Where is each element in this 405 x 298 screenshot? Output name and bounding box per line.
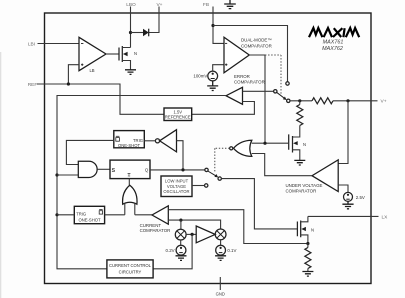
svg-text:DUAL-MODE™: DUAL-MODE™ xyxy=(241,38,272,43)
logic OR gate xyxy=(123,185,137,204)
wire multiplier to buffer xyxy=(186,233,196,235)
wire error comparator top input xyxy=(243,90,274,92)
wire REF net xyxy=(37,84,164,114)
ground 2.5V xyxy=(342,201,353,208)
svg-text:COMPARATOR: COMPARATOR xyxy=(241,43,272,48)
wire FB vertical xyxy=(213,7,224,44)
svg-text:N: N xyxy=(311,228,314,233)
multiplier X2 xyxy=(215,229,226,240)
svg-text:TRIG: TRIG xyxy=(76,212,86,217)
switch LX drive circle B xyxy=(205,184,208,187)
switch FB select pole xyxy=(274,90,277,93)
switch FB blade xyxy=(277,92,287,100)
wire node to multiplier xyxy=(180,220,182,229)
wire one-shot bottom input xyxy=(57,214,74,216)
svg-text:MAX761: MAX761 xyxy=(323,39,344,45)
wire latch Q output xyxy=(150,169,205,171)
svg-text:REF: REF xyxy=(28,82,38,88)
wire latch R input xyxy=(128,179,130,186)
wire V+ top vertical xyxy=(149,7,159,33)
svg-text:MAX762: MAX762 xyxy=(322,46,343,52)
wire divider rail to V+ xyxy=(290,100,378,102)
ground sense resistor xyxy=(302,272,313,277)
transistor Q3 LX output xyxy=(297,216,308,243)
ground 0.1V xyxy=(215,256,226,261)
logic AND gate xyxy=(78,161,97,177)
wire error comparator bottom input from reference xyxy=(192,102,255,115)
svg-text:UNDER VOLTAGE: UNDER VOLTAGE xyxy=(286,183,323,188)
svg-text:Q: Q xyxy=(145,167,149,172)
op-amp error comparator xyxy=(226,87,243,104)
block one-shot bottom xyxy=(74,206,104,223)
wire OR right input xyxy=(134,203,136,215)
svg-text:CURRENT CONTROL: CURRENT CONTROL xyxy=(109,263,152,268)
node LBO junction xyxy=(129,31,132,34)
switch LX drive common xyxy=(218,177,221,180)
op-amp dual-mode comparator xyxy=(224,37,249,73)
voltage source 2.5V xyxy=(344,192,353,201)
node divider top xyxy=(298,99,301,102)
svg-text:2.5V: 2.5V xyxy=(356,195,365,200)
node sense xyxy=(306,242,309,245)
svg-text:CIRCUITRY: CIRCUITRY xyxy=(119,270,142,275)
svg-text:LB: LB xyxy=(89,68,94,73)
svg-text:FB: FB xyxy=(203,2,209,8)
svg-text:V+: V+ xyxy=(156,2,162,8)
wire LB output to Q1 gate xyxy=(106,53,119,55)
svg-text:REFERENCE: REFERENCE xyxy=(165,115,191,120)
wire UV comparator bottom input xyxy=(338,185,348,192)
wire UV comparator output xyxy=(252,154,312,176)
resistor R3 sense xyxy=(305,244,311,272)
wire buffer node to current control xyxy=(153,234,192,268)
transistor Q1 LBO driver xyxy=(119,46,131,70)
svg-text:0.2V: 0.2V xyxy=(166,248,175,253)
wire gate net dual-mode xyxy=(252,142,289,144)
svg-text:1.5V: 1.5V xyxy=(173,109,182,114)
outer border box xyxy=(45,13,372,284)
wire 100mV to comparator plus xyxy=(213,65,224,71)
svg-text:ONE-SHOT: ONE-SHOT xyxy=(118,143,141,148)
wire one-shot output to AND xyxy=(66,140,113,164)
svg-text:COMPARATOR: COMPARATOR xyxy=(140,228,171,233)
svg-text:ONE-SHOT: ONE-SHOT xyxy=(78,217,101,222)
node gate net xyxy=(263,142,266,145)
wire dual-mode output xyxy=(249,55,265,143)
ground 100mV xyxy=(207,81,218,91)
svg-text:COMPARATOR: COMPARATOR xyxy=(286,189,317,194)
buffer U4 xyxy=(196,226,215,243)
wire inverter input from Q xyxy=(177,141,184,170)
wire FB to divider switch xyxy=(213,26,288,82)
block one-shot top xyxy=(114,131,145,148)
resistor R2 vertical xyxy=(293,101,303,137)
node V+ sense xyxy=(346,99,349,102)
wire switch common to LX gate xyxy=(221,179,297,229)
svg-text:N: N xyxy=(134,51,137,56)
block low input voltage oscillator xyxy=(161,176,192,197)
wire dotted switch control lower xyxy=(215,148,230,172)
wire LX drain to pin xyxy=(308,215,379,217)
op-amp LB comparator xyxy=(79,37,106,70)
svg-text:N: N xyxy=(303,142,306,147)
wire dotted switch control upper xyxy=(265,55,281,94)
wire current comparator top input sense xyxy=(168,210,308,244)
switch LX blade xyxy=(208,171,218,177)
switch FB select circle B xyxy=(287,99,290,102)
svg-text:100mV: 100mV xyxy=(193,74,207,79)
wire AND bottom input xyxy=(57,174,78,176)
wire error comparator output feedback xyxy=(57,96,226,269)
ground top pin xyxy=(224,0,236,9)
node feedback to one-shot xyxy=(55,213,58,216)
node multiplier top xyxy=(179,219,182,222)
svg-text:LBO: LBO xyxy=(126,2,136,8)
node FB junction xyxy=(211,24,214,27)
wire oscillator to switch xyxy=(192,185,205,187)
svg-text:0.1V: 0.1V xyxy=(227,248,236,253)
voltage source 0.2V xyxy=(176,240,186,255)
multiplier X1 xyxy=(175,229,186,240)
wire one-shot bottom output xyxy=(105,214,125,216)
voltage source 100mV xyxy=(208,71,218,81)
op-amp current comparator xyxy=(152,206,168,224)
wire current comparator bottom input xyxy=(168,220,220,229)
wire current comparator output xyxy=(135,214,152,216)
svg-text:S: S xyxy=(112,168,116,174)
pin GND xyxy=(219,277,221,290)
node Q to inverter xyxy=(181,168,184,171)
MAXIM logo xyxy=(309,28,359,37)
switch LX drive circle A xyxy=(205,168,208,171)
wire LB plus input xyxy=(68,65,79,84)
svg-text:COMPARATOR: COMPARATOR xyxy=(234,79,265,84)
wire V+ sense down to UV comparator xyxy=(338,101,348,164)
transistor Q2 divider xyxy=(289,134,300,160)
inverter U3 xyxy=(144,130,176,152)
svg-text:ERROR: ERROR xyxy=(234,74,250,79)
svg-text:V+: V+ xyxy=(381,99,387,105)
wire OR left input xyxy=(124,203,126,215)
block SR latch xyxy=(110,160,150,179)
op-amp under-voltage comparator xyxy=(312,160,338,192)
switch FB select circle A xyxy=(286,82,289,85)
ground Q2 source xyxy=(294,160,305,165)
block current control circuitry xyxy=(107,260,153,278)
ground 0.2V xyxy=(176,256,187,261)
svg-text:OSCILLATOR: OSCILLATOR xyxy=(163,189,189,194)
svg-text:LBI: LBI xyxy=(28,42,35,48)
wire LBO vertical xyxy=(130,7,132,48)
svg-text:LX: LX xyxy=(382,215,389,221)
logic NOR gate xyxy=(230,140,252,156)
page edge artifact xyxy=(0,52,1,298)
block 1.5V reference xyxy=(164,108,192,121)
wire LBI to LB comparator xyxy=(38,43,80,45)
voltage source 0.1V xyxy=(216,240,226,255)
node feedback to AND xyxy=(55,173,58,176)
resistor R1 horizontal xyxy=(312,98,333,104)
diode D1 xyxy=(131,29,149,37)
node REF junction xyxy=(67,82,70,85)
wire AND output to latch xyxy=(97,168,110,170)
node buffer input xyxy=(191,233,194,236)
svg-text:GND: GND xyxy=(216,292,225,297)
ground Q1 source xyxy=(125,70,136,75)
